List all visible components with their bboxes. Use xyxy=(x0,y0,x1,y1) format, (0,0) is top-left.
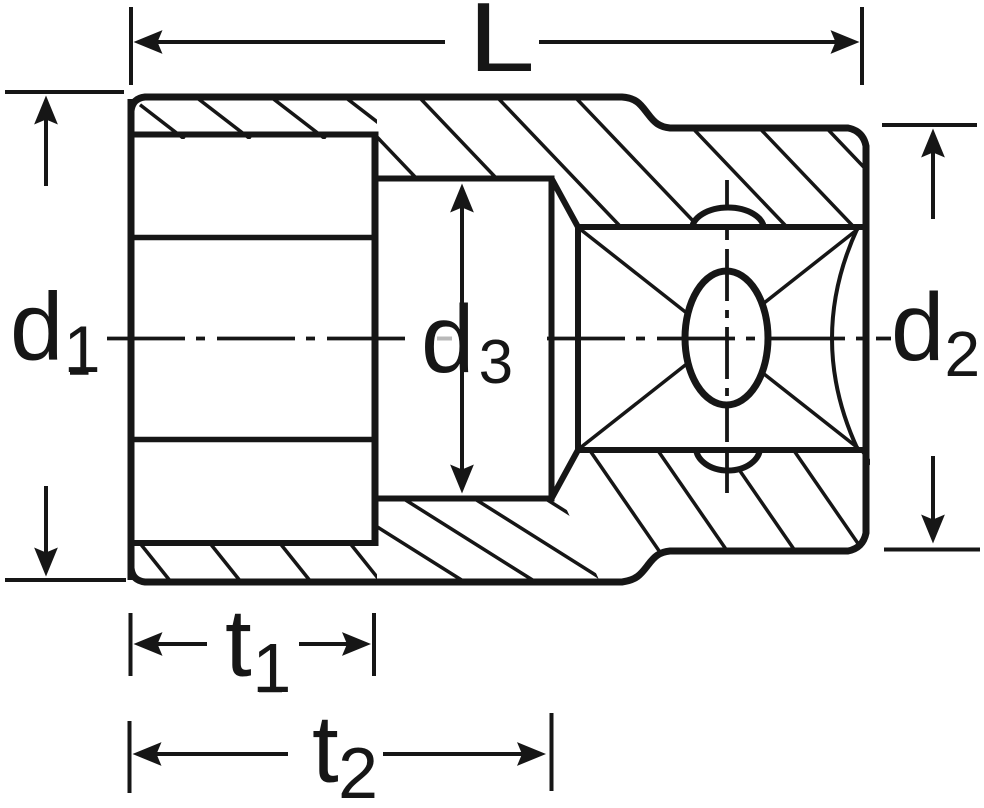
ball-groove notch bottom (white cutout + arc) xyxy=(696,448,760,471)
square diagonal A xyxy=(580,229,858,448)
t2 dimension right arrow xyxy=(383,752,523,756)
hex flat line upper xyxy=(131,235,375,241)
svg-text:1: 1 xyxy=(252,629,291,707)
d3 bore floor xyxy=(375,496,552,502)
hex flat line lower xyxy=(131,437,375,443)
d1 extension line bottom xyxy=(5,578,126,582)
svg-text:d: d xyxy=(891,274,944,381)
t1 extension line right xyxy=(372,613,376,676)
left mouth face xyxy=(128,99,135,580)
taper cone lower xyxy=(552,450,579,499)
svg-text:d: d xyxy=(10,274,63,381)
svg-text:2: 2 xyxy=(338,734,378,808)
svg-text:L: L xyxy=(468,0,535,92)
square diagonal B xyxy=(580,229,858,448)
d3 bore end face xyxy=(549,176,555,502)
hatching: bottom-left thin band xyxy=(139,542,382,583)
hatching: bottom-middle wall under d3 bore xyxy=(328,496,681,584)
t2 extension line left xyxy=(128,721,132,793)
outer body outline of socket xyxy=(131,97,866,582)
hex cavity ceiling xyxy=(129,132,375,138)
hatching: top wall over d3 bore and square drive xyxy=(334,92,924,230)
t2 extension line right xyxy=(550,713,554,791)
svg-text:2: 2 xyxy=(945,318,981,390)
d2 lower arrow xyxy=(931,456,935,520)
faint centerline ghost inside d3 text xyxy=(437,337,452,341)
far cylinder wall arc xyxy=(832,227,858,450)
square drive left edge xyxy=(575,224,581,453)
square drive top edge xyxy=(575,224,866,230)
d3 bore ceiling xyxy=(375,176,552,182)
L dimension extension line right xyxy=(860,7,864,85)
d3 upper arrow xyxy=(460,206,464,304)
t2 dimension left arrow xyxy=(155,752,288,756)
d2 extension line top xyxy=(882,123,977,127)
d1 extension line top xyxy=(5,90,124,94)
hatching: top-left thin band (section of upper wall over hex cavity) xyxy=(140,94,399,139)
horizontal centerline xyxy=(107,337,891,341)
taper cone upper xyxy=(552,179,579,228)
svg-text:d: d xyxy=(421,286,474,393)
hex cavity end face xyxy=(372,132,379,547)
t1 extension line left xyxy=(129,613,133,676)
d3 lower arrow xyxy=(460,370,464,471)
ball-groove notch top (white cutout + arc) xyxy=(692,208,764,230)
d2 extension line bottom xyxy=(884,548,980,552)
vertical centerline of drive xyxy=(725,180,729,493)
hex cavity floor xyxy=(129,540,375,546)
L dimension extension line left xyxy=(129,7,133,85)
svg-text:t: t xyxy=(225,590,252,697)
L dimension line right part with arrow xyxy=(539,40,837,44)
d1 lower arrow xyxy=(44,486,48,554)
svg-text:3: 3 xyxy=(479,328,513,397)
square drive bottom edge xyxy=(575,447,866,453)
t1 dimension left arrow xyxy=(156,642,207,646)
t1 dimension right arrow xyxy=(299,642,348,646)
svg-text:t: t xyxy=(312,696,339,803)
L dimension line left part with arrow xyxy=(156,40,445,44)
d1 upper arrow xyxy=(44,118,48,186)
pin hole ellipse xyxy=(685,271,768,405)
d2 upper arrow xyxy=(931,151,935,219)
hatching: bottom-right wall under square drive xyxy=(587,446,955,585)
svg-text:1: 1 xyxy=(64,312,101,386)
